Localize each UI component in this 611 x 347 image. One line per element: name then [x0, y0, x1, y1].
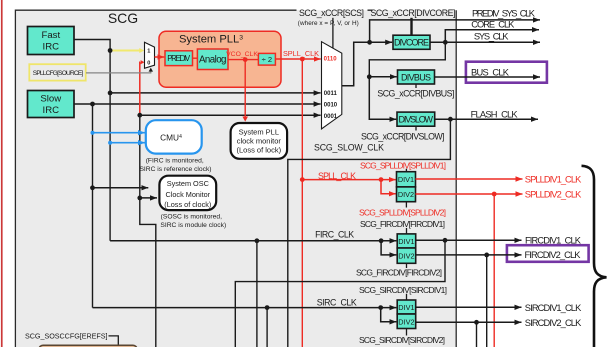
FIRC DIV2: [397, 248, 416, 263]
svg-text:SPLLDIV2_CLK: SPLLDIV2_CLK: [525, 190, 582, 200]
svg-text:(Loss of lock): (Loss of lock): [236, 146, 281, 155]
junction FIRC to PLL mux: [110, 50, 140, 52]
svg-text:SCG_xCCR[DIVBUS]: SCG_xCCR[DIVBUS]: [377, 89, 454, 99]
wire SIRC_CLK to dividers: [93, 307, 397, 309]
svg-text:IRC: IRC: [43, 41, 60, 52]
wire BUS_CLK: [435, 76, 541, 78]
svg-text:DIVCORE: DIVCORE: [394, 38, 429, 48]
svg-text:VCO_CLK: VCO_CLK: [226, 51, 258, 58]
svg-text:SYS_CLK: SYS_CLK: [474, 32, 509, 42]
wire FIRC_CLK to system clock mux: [108, 91, 113, 96]
svg-text:SCG_SPLLDIV[SPLLDIV2]: SCG_SPLLDIV[SPLLDIV2]: [359, 207, 446, 217]
DIVBUS register connector: [415, 84, 417, 88]
svg-text:SCG_SPLLDIV[SPLLDIV1]: SCG_SPLLDIV[SPLLDIV1]: [360, 160, 446, 170]
wire FIRC return rail: [235, 240, 445, 347]
svg-text:SIRC is module clock): SIRC is module clock): [160, 222, 226, 229]
svg-text:System PLL: System PLL: [239, 127, 279, 136]
wire FIRCDIV2 branch down: [486, 255, 488, 347]
output group brace: [582, 166, 607, 347]
svg-text:0001: 0001: [324, 114, 338, 120]
svg-text:DIV2: DIV2: [398, 252, 414, 261]
SPLLCFG[SOURCE] register: [29, 64, 85, 80]
wire SPLLDIV2_CLK (red): [416, 193, 523, 195]
wire SIRCDIV1_CLK: [416, 306, 522, 308]
svg-text:DIVBUS: DIVBUS: [401, 72, 431, 82]
svg-text:DIV1: DIV1: [398, 237, 414, 246]
wire SIRCDIV2_CLK: [416, 321, 522, 323]
svg-text:SCG_xCCR[SCS]: SCG_xCCR[SCS]: [299, 8, 364, 18]
svg-text:0011: 0011: [324, 91, 338, 97]
wire EREFS connector: [109, 336, 119, 345]
svg-text:clock monitor: clock monitor: [237, 137, 282, 146]
svg-text:DIV1: DIV1: [398, 175, 414, 184]
SPLLDIV register connectors: [405, 169, 407, 208]
svg-text:SCG_FIRCDIV[FIRCDIV1]: SCG_FIRCDIV[FIRCDIV1]: [360, 219, 445, 229]
svg-text:0010: 0010: [324, 103, 338, 109]
svg-text:FIRCDIV1_CLK: FIRCDIV1_CLK: [525, 235, 582, 245]
wire PREDIV to Analog: [193, 57, 198, 59]
wire SPLLDIV1_CLK (red): [416, 178, 523, 180]
svg-text:PREDIV_SYS_CLK: PREDIV_SYS_CLK: [472, 9, 536, 19]
svg-text:FLASH_CLK: FLASH_CLK: [471, 109, 519, 119]
SPLL DIV2: [397, 187, 416, 202]
svg-text:0: 0: [147, 61, 150, 67]
wire SPLLDIV2 branch down (red): [493, 194, 495, 347]
System PLL clock monitor: [231, 123, 288, 159]
Fast IRC: [28, 27, 75, 55]
wire system mux output up to DIVCORE: [342, 42, 392, 86]
svg-text:SPLL_CLK: SPLL_CLK: [283, 49, 319, 58]
svg-text:(FIRC is monitored,: (FIRC is monitored,: [146, 157, 204, 164]
svg-text:SCG_xCCR[DIVSLOW]: SCG_xCCR[DIVSLOW]: [361, 131, 445, 141]
Slow IRC: [28, 91, 75, 118]
wire CORE_CLK: [445, 30, 539, 43]
wire PLL mux select (grey, from SPLLCFG): [86, 72, 151, 73]
svg-text:FIRCDIV2_CLK: FIRCDIV2_CLK: [525, 250, 582, 260]
svg-text:SCG: SCG: [108, 10, 138, 26]
FIRCDIV register connectors: [406, 228, 408, 268]
svg-text:SCG_SOSCCFG[EREFS]: SCG_SOSCCFG[EREFS]: [25, 332, 108, 341]
DIVSLOW: [397, 112, 435, 126]
svg-text:Fast: Fast: [41, 30, 60, 41]
svg-text:BUS_CLK: BUS_CLK: [471, 68, 510, 78]
wire SPLL_CLK to dividers (red): [300, 177, 305, 182]
wire SOSC_CLK riser to PLL source mux (red): [139, 62, 141, 115]
SIRC DIV2: [397, 314, 416, 329]
svg-text:System OSC: System OSC: [167, 179, 209, 188]
svg-text:SCG_FIRCDIV[FIRCDIV2]: SCG_FIRCDIV[FIRCDIV2]: [356, 268, 442, 278]
DIVSLOW register connector: [415, 126, 417, 130]
wire FIRC branch down: [256, 241, 258, 347]
wire SYS_CLK down to DIVBUS: [369, 42, 445, 77]
SIRC DIV1: [397, 300, 416, 314]
svg-text:Analog: Analog: [199, 55, 227, 66]
svg-text:Clock Monitor: Clock Monitor: [165, 190, 210, 199]
page change bar (red margin line): [1, 0, 3, 347]
PLL source mux: [145, 42, 155, 68]
svg-text:SIRC_CLK: SIRC_CLK: [317, 297, 357, 307]
svg-text:SIRC is reference clock): SIRC is reference clock): [139, 166, 211, 173]
svg-text:÷ 2: ÷ 2: [262, 55, 273, 64]
DIVCORE: [393, 35, 430, 49]
svg-text:DIV1: DIV1: [398, 303, 414, 312]
svg-text:PREDIV: PREDIV: [167, 54, 191, 63]
wire SIRC branch down: [266, 308, 268, 347]
svg-text:CORE_CLK: CORE_CLK: [471, 20, 515, 30]
svg-text:DIV2: DIV2: [398, 317, 414, 326]
wire FIRCDIV2_CLK: [416, 254, 522, 256]
svg-text:SCG_SLOW_CLK: SCG_SLOW_CLK: [314, 142, 384, 152]
DIVCORE register connector: [410, 18, 412, 35]
wire SOSC_CLK to system clock mux: [137, 113, 142, 118]
DIVBUS: [398, 70, 435, 84]
svg-text:SIRCDIV2_CLK: SIRCDIV2_CLK: [525, 318, 582, 328]
svg-text:DIV2: DIV2: [398, 190, 414, 199]
wire SYS_CLK: [430, 41, 540, 43]
svg-text:System PLL3: System PLL3: [179, 33, 243, 45]
svg-text:SCG_SIRCDIV[SIRCDIV2]: SCG_SIRCDIV[SIRCDIV2]: [359, 335, 445, 345]
divide-by-2: [258, 53, 275, 65]
SPLL DIV1: [397, 172, 416, 187]
svg-text:1: 1: [147, 48, 150, 54]
wire PLL mux out to PREDIV (red): [155, 56, 165, 58]
svg-text:(SOSC is monitored,: (SOSC is monitored,: [161, 214, 222, 221]
junction SOSC to OSC monitor: [137, 196, 142, 201]
svg-text:Slow: Slow: [40, 94, 61, 105]
wire Analog to divide-by-2: [228, 59, 258, 61]
wire SIRC to CMU (blue): [91, 131, 95, 135]
wire FLASH_CLK: [435, 118, 538, 120]
wire to DIVSLOW: [369, 77, 396, 119]
svg-text:SCG_xCCR[DIVCORE]: SCG_xCCR[DIVCORE]: [371, 8, 456, 18]
System OSC clock monitor: [159, 176, 216, 210]
wire SIRC rail down: [92, 104, 94, 308]
System PLL block: [159, 31, 281, 87]
svg-text:(where x = P, V, or H): (where x = P, V, or H): [298, 20, 359, 27]
Analog: [197, 49, 228, 70]
FIRCDIV2 highlight box (purple): [507, 245, 589, 262]
FIRC DIV1: [397, 234, 416, 248]
svg-text:IRC: IRC: [43, 105, 60, 116]
wire FIRC_CLK to dividers: [110, 240, 396, 242]
CMU: [146, 120, 202, 153]
svg-text:0110: 0110: [324, 57, 338, 63]
wire SIRC to OSC monitor: [90, 185, 95, 190]
wire SCG_SLOW_CLK return rail: [288, 119, 451, 347]
System OSC block (partial, bottom): [39, 345, 137, 347]
svg-text:SPLLCFG[SOURCE]: SPLLCFG[SOURCE]: [33, 70, 84, 77]
wire SOSC rail down with jog: [140, 115, 156, 347]
SCG block boundary: [15, 10, 456, 347]
wire SIRCDIV2 branch down: [476, 322, 478, 347]
wire SIRC (Slow IRC) to system clock mux: [74, 103, 321, 105]
system clock mux: [322, 42, 342, 129]
wire FIRC to CMU (blue): [108, 141, 112, 145]
svg-text:SPLLDIV1_CLK: SPLLDIV1_CLK: [525, 174, 582, 184]
SIRCDIV register connectors: [406, 294, 408, 336]
svg-text:SIRCDIV1_CLK: SIRCDIV1_CLK: [525, 303, 582, 313]
svg-text:CMU4: CMU4: [160, 133, 182, 143]
wire SPLL_CLK rail down (red): [301, 59, 303, 347]
svg-text:FIRC_CLK: FIRC_CLK: [315, 230, 354, 240]
wire PREDIV_SYS_CLK: [370, 20, 540, 42]
BUS_CLK highlight box (purple): [466, 62, 547, 83]
wire Fast IRC output down to FIRC rail: [74, 40, 110, 241]
wire FIRCDIV1_CLK: [416, 239, 522, 241]
svg-text:(Loss of clock): (Loss of clock): [164, 200, 211, 209]
PREDIV: [165, 51, 193, 66]
wire system mux select: [332, 18, 334, 48]
junction SIRC rail: [90, 102, 95, 107]
wire VCO_CLK down to PLL monitor (red): [244, 60, 246, 118]
svg-text:SCG_SIRCDIV[SIRCDIV1]: SCG_SIRCDIV[SIRCDIV1]: [359, 285, 447, 295]
svg-text:DIVSLOW: DIVSLOW: [399, 115, 434, 125]
